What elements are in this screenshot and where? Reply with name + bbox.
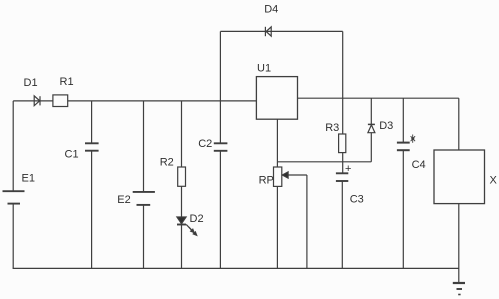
capacitor C1: [85, 143, 99, 150]
svg-text:R2: R2: [160, 156, 174, 168]
wire C2 vertical (top wire corner through bus to C2): [219, 31, 221, 143]
wire mid (RP node to D3): [277, 161, 371, 163]
wire left vertical bottom (E1 to bottom bus): [12, 204, 14, 269]
svg-text:D4: D4: [264, 4, 278, 16]
wire U1 bottom pin to RP: [276, 119, 278, 167]
svg-text:C4: C4: [412, 159, 426, 171]
wire E2 to bottom bus: [143, 205, 145, 269]
wire RP to bottom bus: [276, 186, 278, 268]
wire D2 to bottom bus: [181, 225, 183, 269]
wire X to ground: [458, 204, 460, 283]
wire R3 to C3: [342, 153, 344, 174]
wire R2 stub: [181, 101, 183, 167]
LED D2: [177, 217, 197, 235]
wire top bus: [13, 100, 256, 102]
diode D4: [265, 27, 271, 36]
wire D3 to mid wire: [370, 133, 372, 162]
capacitor C4: [397, 143, 410, 151]
ground: [453, 283, 465, 295]
wire C1 stub: [91, 101, 93, 143]
svg-text:C1: C1: [65, 148, 79, 160]
wire top D4 net: [220, 30, 342, 32]
svg-text:+: +: [345, 163, 351, 175]
wire D4 right vertical down to R3: [342, 31, 344, 134]
wire left vertical top (bus to E1): [12, 101, 14, 191]
svg-text:R3: R3: [325, 122, 339, 134]
label * of C4: [411, 135, 416, 143]
resistor R1: [53, 95, 68, 107]
resistor R2: [178, 167, 186, 186]
svg-text:C3: C3: [350, 193, 364, 205]
wire D3 stub: [370, 98, 372, 124]
svg-text:D3: D3: [379, 120, 393, 132]
wire E2 stub: [143, 101, 145, 192]
svg-text:E2: E2: [117, 194, 130, 206]
svg-text:U1: U1: [257, 63, 271, 75]
wire R2 to D2: [181, 186, 183, 217]
capacitor C3: [336, 173, 348, 181]
wire X drop: [458, 98, 460, 150]
potentiometer RP: [274, 167, 282, 186]
wire C4 stub: [402, 98, 404, 142]
battery E2: [133, 192, 155, 205]
load X: [434, 150, 485, 204]
RP wiper arrow: [282, 172, 307, 269]
zener diode D3: [368, 124, 375, 132]
svg-text:E1: E1: [22, 172, 35, 184]
svg-text:R1: R1: [60, 76, 74, 88]
op-amp U1: [256, 77, 297, 120]
svg-text:C2: C2: [198, 138, 212, 150]
wire C1 to bottom bus: [91, 151, 93, 269]
wire right bus: [298, 97, 459, 99]
wire C4 to bottom bus: [402, 150, 404, 268]
wire C3 to bottom bus: [341, 181, 343, 268]
capacitor C2: [214, 143, 228, 151]
svg-text:RP: RP: [259, 175, 274, 187]
svg-text:D2: D2: [190, 213, 204, 225]
svg-text:D1: D1: [24, 77, 38, 89]
diode D1: [34, 96, 40, 106]
svg-text:X: X: [490, 174, 498, 186]
wire C2 to bottom bus: [219, 151, 221, 269]
battery E1: [3, 191, 25, 203]
resistor R3: [339, 134, 346, 153]
wire bottom bus: [13, 267, 459, 269]
